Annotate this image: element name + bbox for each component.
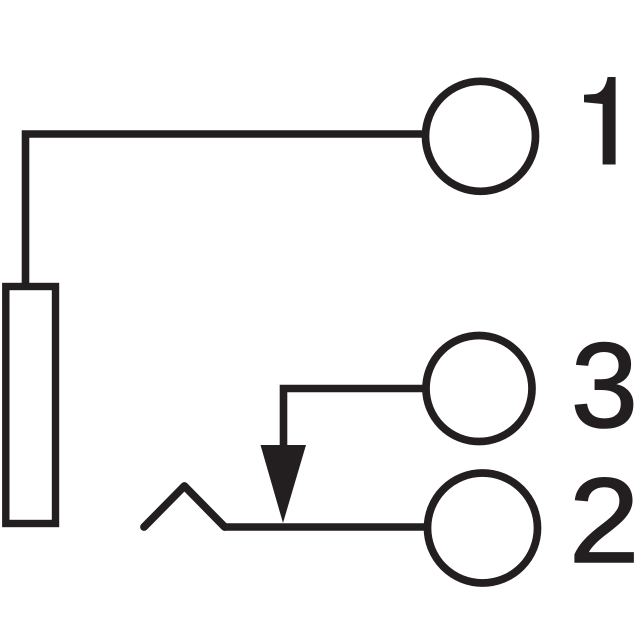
- pin 3 circle: [426, 336, 532, 442]
- wire from pin 2 to tip contact: [224, 523, 424, 531]
- tip contact spring (zigzag): [144, 486, 225, 527]
- wire from pin 3 to switch arrow: [284, 389, 425, 447]
- pin 1 circle: [426, 81, 536, 191]
- pin label 1: [584, 77, 616, 165]
- wire from pin 1 to sleeve contact: [26, 134, 425, 288]
- sleeve contact (jack body rectangle): [6, 287, 56, 524]
- switch arrowhead: [261, 445, 307, 523]
- pin 2 circle: [428, 473, 538, 583]
- svg-text:3: 3: [571, 318, 638, 453]
- svg-text:2: 2: [569, 454, 640, 588]
